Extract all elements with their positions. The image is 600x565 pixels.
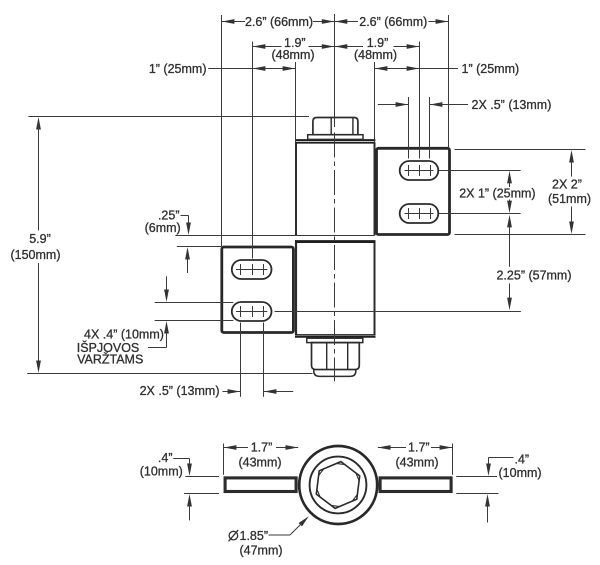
dimension 2X 2 inch [569,150,574,163]
bottom bolt tip [314,370,356,377]
svg-text:(10mm): (10mm) [140,465,183,479]
svg-text:.4”: .4” [515,453,530,467]
svg-text:2.6” (66mm): 2.6” (66mm) [359,15,427,29]
top bolt hex head [313,118,358,135]
svg-text:(43mm): (43mm) [395,456,438,470]
dimension 1 inch right [375,68,459,70]
dimension 1.9 inch right [335,46,364,48]
svg-text:2X .5” (13mm): 2X .5” (13mm) [140,384,220,398]
svg-text:(48mm): (48mm) [271,48,314,62]
left leaf plate [222,247,294,333]
svg-text:1.7”: 1.7” [408,441,430,455]
extension lines right slot outer crosses [408,97,410,159]
svg-text:(51mm): (51mm) [548,192,591,206]
diameter leader [269,534,291,536]
svg-text:4X .4” (10mm): 4X .4” (10mm) [84,328,164,342]
left arm [225,478,296,492]
extension line barrel right top [374,62,376,143]
extension line bolt bottom [27,373,312,375]
svg-text:(150mm): (150mm) [10,248,60,262]
hinge barrel lower half [295,243,375,335]
svg-text:1.85”: 1.85” [240,529,269,543]
extension line right slot mid [419,42,421,159]
svg-text:(6mm): (6mm) [145,221,181,235]
extension lines left lower slot tangents [155,302,234,304]
extension line upper barrel bottom [175,235,374,237]
extension line right plate top [455,149,586,151]
dimension 1.9 inch left [253,46,282,48]
svg-text:1” (25mm): 1” (25mm) [462,62,520,76]
dimension 2X .5 inch top [378,104,409,106]
svg-text:2X 2”: 2X 2” [552,178,582,192]
left slot cross bars [236,269,267,271]
right leaf plate [377,148,450,234]
extension line left plate top [177,246,222,248]
right slot cross ticks [409,165,431,219]
extension line left plate edge [221,15,223,246]
dimension 5.9 inch [36,117,41,130]
svg-text:2.6” (66mm): 2.6” (66mm) [245,15,313,29]
dimension 1 inch left [208,68,295,70]
extension line right arm end [452,444,454,475]
bottom bolt washer [307,338,363,342]
svg-text:2X .5” (13mm): 2X .5” (13mm) [472,98,552,112]
left plate upper slot [232,260,272,279]
dimension 4X .4 inch slot [166,276,168,291]
svg-text:1.7”: 1.7” [251,441,273,455]
right slot leaders and cross bars [405,170,434,172]
extension lines left arm edges [185,476,219,478]
extension lines below left slots [240,323,242,397]
top bolt washer [308,135,363,140]
extension line barrel left top [295,62,297,143]
svg-text:1” (25mm): 1” (25mm) [149,62,207,76]
right arm [380,478,451,492]
svg-text:2X 1” (25mm): 2X 1” (25mm) [459,187,535,201]
extension line hex bolt top [28,116,309,118]
extension line left arm end [223,444,225,475]
hinge barrel upper half [295,143,375,236]
extension lines right arm edges [456,476,497,478]
lower barrel rolled top edge (joint) [295,240,376,243]
dimension 1.7 inch right [378,447,406,449]
left lower slot leader across barrel [275,311,521,313]
svg-text:2.25” (57mm): 2.25” (57mm) [496,268,571,282]
inner circle [310,457,367,514]
left plate lower slot [232,302,272,321]
extension line right plate bottom [455,234,586,236]
dimension .4 inch right [489,457,514,459]
dimension 1.7 inch left [224,447,249,449]
svg-text:(10mm): (10mm) [499,466,542,480]
svg-text:.4”: .4” [158,451,173,465]
svg-text:(47mm): (47mm) [239,544,282,558]
diameter symbol [229,531,238,540]
hex nut section [316,462,359,509]
dimension 2.25 inch [507,215,512,228]
svg-text:VARŽTAMS: VARŽTAMS [77,352,143,367]
extension line right plate edge [448,15,450,148]
right plate lower slot [400,204,439,223]
barrel top rolled edge [295,139,375,141]
svg-text:(48mm): (48mm) [354,48,397,62]
centerline vertical [334,14,336,127]
dimension 2.6 inch left [222,21,246,23]
right plate upper slot [400,161,439,180]
dimension 2X 1 inch [507,171,512,184]
bottom bolt hex nut [312,343,360,370]
dimension 2.6 inch right [335,21,359,23]
hex corner chamfer marks [317,464,359,507]
extension line left slot mid [252,42,254,259]
outer circle (barrel section) [299,446,377,524]
barrel bottom rolled edge [295,334,376,336]
svg-text:(43mm): (43mm) [238,456,281,470]
left slot cross ticks [241,264,264,317]
svg-text:5.9”: 5.9” [29,232,51,246]
